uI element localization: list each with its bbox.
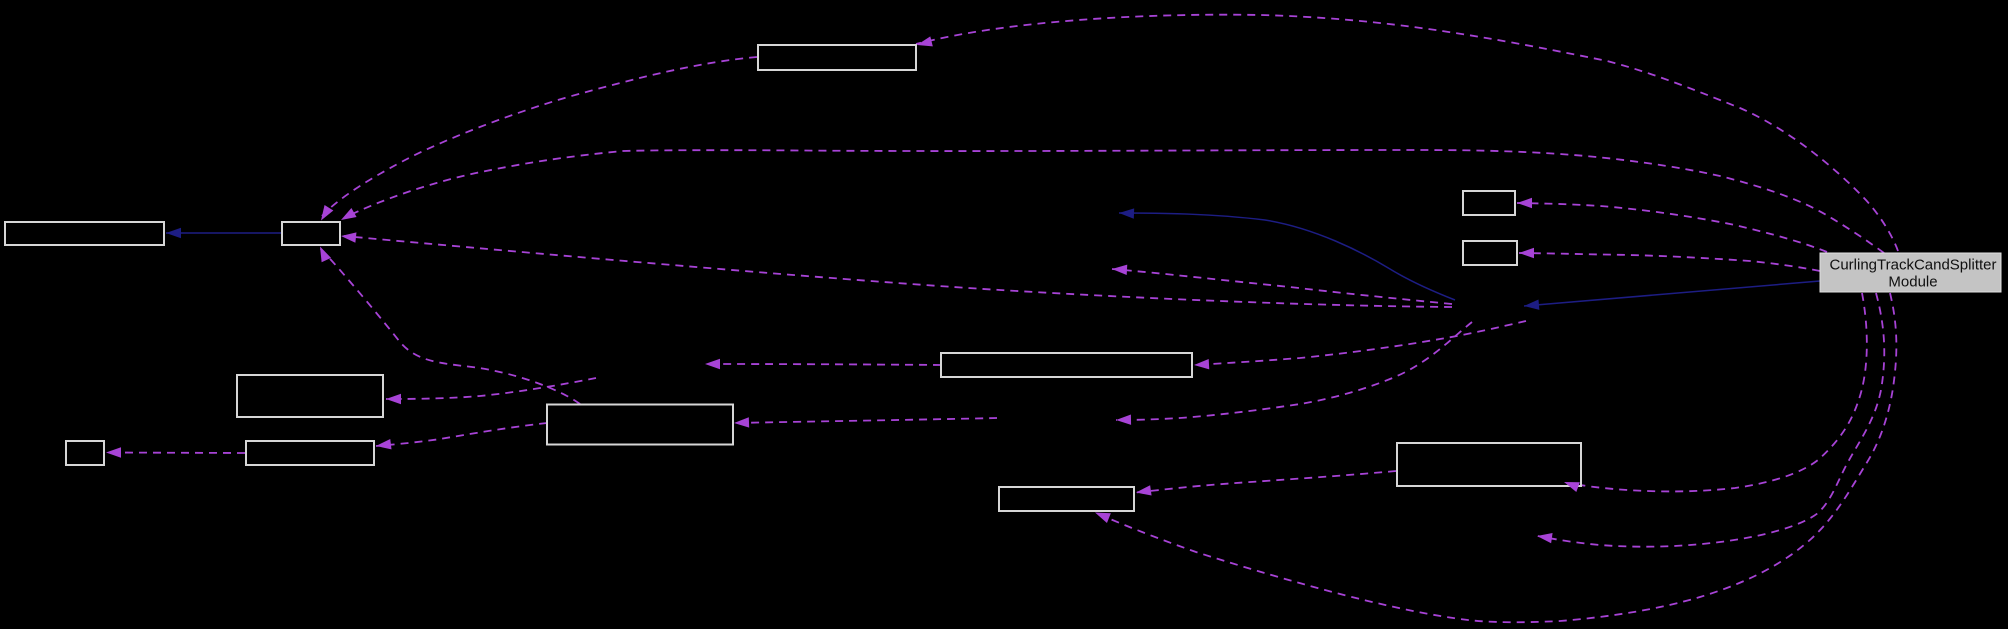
svg-text:Module: Module — [1888, 274, 1937, 291]
svg-text:CurlingTrackCandSplitter: CurlingTrackCandSplitter — [1829, 257, 1996, 274]
